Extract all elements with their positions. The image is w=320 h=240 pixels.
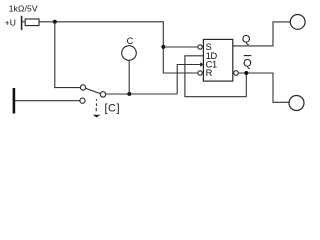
wire ground bar to lower throw <box>15 100 80 102</box>
lamp L2 (Q̄ indicator) <box>289 96 304 111</box>
switch S1 lower throw contact <box>80 98 85 103</box>
flip-flop U1 body <box>203 39 232 81</box>
wire resistor to corner (top rail) <box>39 21 164 23</box>
node B junction dot (C button tap) <box>127 92 131 96</box>
svg-text:[C]: [C] <box>105 102 121 114</box>
node A junction dot <box>53 20 57 24</box>
main vertical S/R rail <box>163 22 198 73</box>
svg-text:C: C <box>127 36 134 46</box>
svg-text:1kΩ/5V: 1kΩ/5V <box>9 3 38 13</box>
switch S1 upper throw contact <box>80 85 85 90</box>
switch S1 pole contact <box>100 92 105 97</box>
lamp L1 (Q indicator) <box>290 15 305 30</box>
wire node A down to switch upper throw <box>55 22 81 88</box>
push button C stem <box>128 60 130 94</box>
wire Q̄ output <box>238 73 289 102</box>
switch S1 lever <box>86 88 101 93</box>
wire 1D feedback: Q̄ node down, across, up to 1D <box>185 56 246 97</box>
wire Q output <box>233 22 290 46</box>
resistor R 1kΩ <box>25 19 39 26</box>
svg-text:R: R <box>206 68 213 78</box>
push button C <box>122 46 137 61</box>
node D junction dot (feedback tap) <box>244 71 248 75</box>
S input bubble <box>198 45 202 49</box>
svg-text:Q: Q <box>242 34 251 46</box>
clock dynamic input arrow <box>200 62 204 66</box>
Q̄ output bubble <box>234 71 239 76</box>
wire C1 net: up from pole rail to clock input <box>177 65 201 95</box>
power terminal +U bar <box>21 16 23 30</box>
node C junction dot (S tap) <box>161 45 165 49</box>
ground terminal bar <box>13 88 16 114</box>
key hint dashed arrow <box>95 99 97 111</box>
wire S tap to S input <box>163 46 198 48</box>
wire pole to C1 drop <box>106 93 178 95</box>
svg-text:Q: Q <box>243 57 252 69</box>
svg-text:+U: +U <box>5 18 16 28</box>
wire terminal to resistor <box>22 21 25 23</box>
R input bubble <box>198 71 202 75</box>
